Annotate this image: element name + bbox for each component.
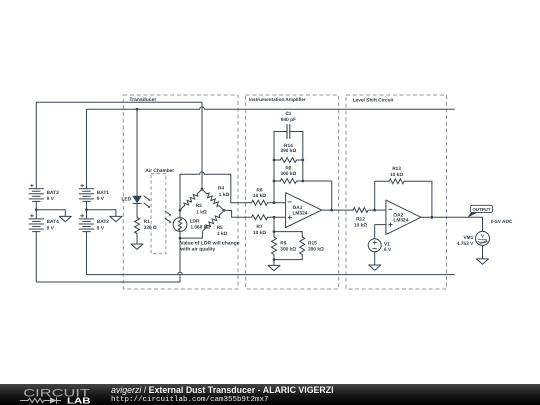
wire bridge bottom drop (hops BAT2 rail)	[178, 238, 183, 282]
wire BAT1 positive rail (hops bridge drop)	[87, 107, 455, 189]
svg-text:BAT4: BAT4	[47, 219, 60, 225]
wire LED branch from positive rail	[136, 109, 138, 196]
svg-text:R1: R1	[144, 219, 150, 225]
wire LDR to bottom node	[179, 231, 181, 238]
op-amp OA2	[386, 200, 421, 235]
wire BAT2 negative rail	[87, 232, 455, 275]
svg-text:300 kΩ: 300 kΩ	[280, 247, 296, 253]
svg-text:R14: R14	[284, 143, 293, 149]
wire non-inverting divider branch	[274, 217, 302, 231]
wire VM1 to ground	[482, 245, 484, 259]
ground left supply pair	[59, 216, 71, 221]
label 0-5V ADC	[491, 219, 513, 225]
wire feedback right vertical to output	[303, 132, 332, 211]
svg-text:4.753 V: 4.753 V	[457, 241, 474, 247]
wire R1 to ground	[136, 234, 138, 245]
dashed box Level Shift Circuit section	[346, 95, 447, 289]
svg-text:BAT2: BAT2	[97, 219, 110, 225]
node R14 right	[301, 159, 304, 162]
wire bridge right node to R7	[224, 210, 252, 217]
wire V1 to ground	[374, 252, 376, 265]
wire output drop to voltmeter	[482, 217, 484, 231]
voltmeter VM1	[457, 231, 490, 247]
svg-text:1 kΩ: 1 kΩ	[219, 192, 230, 198]
battery BAT4	[29, 214, 59, 231]
battery BAT1	[79, 184, 109, 202]
svg-text:300 kΩ: 300 kΩ	[280, 171, 296, 177]
ground level shift	[369, 265, 381, 270]
resistor R15	[300, 232, 324, 260]
svg-text:OA1: OA1	[293, 205, 303, 211]
node OA2 feedback input	[373, 209, 376, 212]
svg-text:LM324: LM324	[393, 218, 408, 224]
svg-text:R4: R4	[218, 186, 224, 192]
wire BAT4 negative rail	[36, 232, 180, 282]
wire R6 to inverting input	[268, 202, 286, 204]
dashed box Instrumentation Amplifier section	[246, 95, 339, 289]
wire left pair ground stub	[36, 210, 65, 217]
svg-text:6 V: 6 V	[384, 247, 392, 253]
svg-text:9 V: 9 V	[47, 196, 55, 202]
resistor R4	[203, 186, 229, 209]
wire R9 R15 bottom link	[274, 259, 302, 261]
node R8 right	[301, 180, 304, 183]
resistor R5	[203, 212, 228, 237]
resistor R14	[274, 143, 303, 163]
LED D1	[122, 196, 142, 203]
svg-text:10 kΩ: 10 kΩ	[253, 193, 266, 199]
svg-text:with air quality: with air quality	[179, 246, 215, 252]
svg-text:R9: R9	[280, 241, 286, 247]
resistor R6	[252, 187, 268, 205]
ground output voltmeter	[477, 259, 489, 264]
node R8 left	[273, 180, 276, 183]
op-amp OA1	[286, 193, 322, 228]
svg-text:VM1: VM1	[463, 235, 473, 241]
dashed box Transducer section	[123, 95, 238, 289]
svg-text:OUTPUT: OUTPUT	[472, 207, 490, 212]
wire bridge left branch	[179, 174, 181, 217]
svg-text:10 kΩ: 10 kΩ	[253, 230, 266, 236]
node LED supply tap	[136, 108, 139, 111]
wire bridge supply drop	[201, 102, 203, 189]
resistor R1	[135, 218, 157, 234]
wire bridge to R6	[231, 174, 252, 202]
wire R7 to non-inverting input	[268, 216, 286, 218]
svg-text:LAB: LAB	[67, 396, 91, 405]
node OA2 output feedback	[431, 216, 434, 219]
svg-text:Instrumentation Amplifier: Instrumentation Amplifier	[249, 97, 306, 102]
svg-text:R13: R13	[392, 166, 401, 172]
svg-text:BAT1: BAT1	[97, 190, 110, 196]
svg-text:R6: R6	[256, 187, 262, 193]
node R3 to LDR junction	[179, 209, 182, 212]
ground right supply pair	[110, 216, 122, 221]
resistor R7	[252, 215, 268, 236]
svg-text:LM324: LM324	[293, 211, 308, 217]
wire R12 to OA2 inverting input	[368, 209, 386, 211]
svg-text:Air Chamber: Air Chamber	[145, 168, 174, 174]
svg-text:1.068 kΩ: 1.068 kΩ	[190, 224, 210, 230]
svg-text:9 V: 9 V	[47, 225, 55, 231]
output flag OUTPUT	[467, 205, 492, 217]
ground instrumentation amplifier	[268, 265, 280, 270]
svg-text:R15: R15	[308, 241, 317, 247]
node bridge right	[222, 209, 225, 212]
LDR light arrows	[165, 211, 172, 224]
svg-text:BAT3: BAT3	[47, 190, 60, 196]
LDR LDR1	[173, 218, 210, 232]
resistor R9	[272, 232, 297, 260]
wire R5 bottom elbow	[180, 231, 202, 238]
svg-text:1 kΩ: 1 kΩ	[217, 231, 228, 237]
svg-text:R8: R8	[285, 166, 291, 172]
wire to instrumentation ground	[273, 260, 275, 266]
LED light arrows	[144, 196, 151, 209]
wire LED to R1	[136, 204, 138, 218]
svg-text:1 kΩ: 1 kΩ	[196, 209, 207, 215]
node BAT3-BAT4 junction	[35, 208, 38, 211]
svg-text:10 kΩ: 10 kΩ	[390, 172, 403, 178]
svg-text:9 V: 9 V	[97, 225, 105, 231]
wire BAT3 positive rail	[36, 102, 202, 188]
svg-text:V: V	[481, 233, 484, 238]
CircuitLab logo	[0, 384, 96, 405]
wire BAT1-BAT2 link	[86, 201, 88, 219]
resistor R8	[274, 166, 303, 184]
wire OA1 output	[322, 209, 353, 211]
schematic title	[111, 385, 334, 405]
wire bridge top link (hops supply drop)	[180, 172, 231, 174]
note LDR air quality	[179, 241, 239, 253]
wire V1 to non-inverting input	[375, 225, 386, 239]
battery BAT3	[29, 184, 59, 202]
svg-text:R5: R5	[217, 225, 223, 231]
node OA1 feedback	[330, 209, 333, 212]
resistor R3	[181, 191, 207, 216]
svg-text:9 V: 9 V	[97, 196, 105, 202]
wire right pair ground stub	[87, 210, 116, 217]
ground below R1	[131, 244, 143, 249]
capacitor C1	[274, 111, 303, 138]
node BAT1-BAT2 junction	[85, 208, 88, 211]
resistor R12	[353, 208, 368, 229]
svg-text:LDR: LDR	[190, 218, 200, 224]
dashed box Air Chamber	[145, 168, 174, 254]
node divider branch	[273, 230, 276, 233]
node inverting input	[273, 201, 276, 204]
wire R13 feedback loop	[375, 181, 432, 217]
svg-text:R7: R7	[256, 224, 262, 230]
svg-text:V1: V1	[384, 241, 390, 247]
svg-text:940 pF: 940 pF	[281, 117, 296, 123]
svg-text:390 kΩ: 390 kΩ	[280, 148, 296, 154]
svg-text:Level Shift Circuit: Level Shift Circuit	[353, 97, 394, 103]
node R9 bottom	[273, 258, 276, 261]
svg-text:330 Ω: 330 Ω	[144, 225, 157, 231]
node R14 left	[273, 159, 276, 162]
battery BAT2	[79, 214, 109, 231]
svg-text:R12: R12	[356, 217, 365, 223]
resistor R13	[389, 166, 404, 184]
wire BAT3-BAT4 link	[35, 201, 37, 219]
node bridge top	[201, 188, 204, 191]
wire feedback left vertical	[273, 132, 275, 203]
node non-inverting input	[273, 216, 276, 219]
node bridge bottom	[179, 237, 182, 240]
voltage source V1	[368, 239, 392, 253]
svg-text:LED: LED	[122, 197, 132, 203]
svg-text:10 kΩ: 10 kΩ	[354, 223, 367, 229]
svg-text:C1: C1	[285, 111, 291, 117]
svg-text:OA2: OA2	[393, 212, 403, 218]
svg-text:R3: R3	[196, 203, 202, 209]
svg-text:390 kΩ: 390 kΩ	[308, 247, 324, 253]
svg-text:0-5V ADC: 0-5V ADC	[491, 219, 513, 225]
wire OA2 output	[421, 216, 483, 218]
